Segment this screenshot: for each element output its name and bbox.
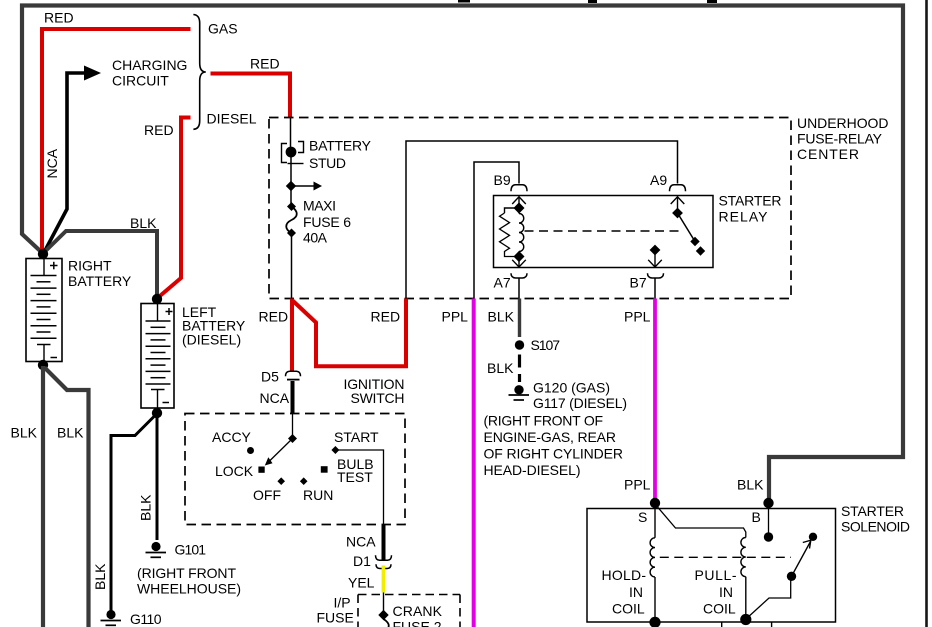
- svg-text:BLK: BLK: [737, 477, 764, 493]
- svg-text:COIL: COIL: [612, 600, 645, 616]
- svg-text:RED: RED: [259, 309, 289, 325]
- wire arrow to charging circuit: [45, 66, 102, 252]
- wire fuse box internal from relay B9: [474, 162, 519, 299]
- svg-text:IN: IN: [719, 584, 733, 600]
- label BATTERY STUD: [309, 137, 372, 171]
- connector pin A7: [511, 257, 527, 299]
- svg-text:RED: RED: [250, 55, 280, 71]
- svg-text:40A: 40A: [303, 229, 328, 245]
- svg-text:TEST: TEST: [337, 469, 373, 485]
- node switch common junction: [288, 434, 297, 443]
- svg-text:I/P: I/P: [334, 595, 351, 611]
- wire BLK between battery positives: [45, 231, 157, 297]
- label IGNITION SWITCH: [344, 376, 405, 406]
- contact OFF: [277, 477, 285, 485]
- contact RUN: [300, 477, 308, 485]
- label CHARGING CIRCUIT: [112, 57, 187, 89]
- svg-text:A7: A7: [494, 275, 511, 291]
- battery LEFT BATTERY (DIESEL): [141, 304, 174, 409]
- wire BLK right battery negative down (2): [45, 368, 89, 627]
- svg-text:PPL: PPL: [442, 309, 469, 325]
- ground G110: [101, 610, 122, 625]
- wire PPL from B9 down off-page: [472, 299, 476, 627]
- node hold-in coil bottom junction: [649, 617, 660, 627]
- svg-text:BLK: BLK: [130, 215, 157, 231]
- svg-text:S: S: [638, 509, 647, 525]
- label (RIGHT FRONT WHEELHOUSE): [137, 565, 241, 597]
- wire into I/P fuse block: [383, 593, 385, 614]
- label STARTER SOLENOID: [841, 503, 910, 535]
- svg-text:G101: G101: [175, 542, 207, 558]
- node junction with arrow tap: [286, 181, 322, 191]
- wire BLK A7 to S107: [518, 299, 521, 338]
- contact START: [331, 446, 339, 454]
- ground G120/G117: [509, 385, 530, 400]
- wire battery stud feed: [290, 118, 292, 148]
- svg-text:FUSE 6: FUSE 6: [303, 214, 351, 230]
- svg-text:RED: RED: [144, 122, 174, 138]
- svg-text:CENTER: CENTER: [797, 146, 859, 162]
- wire S to pull-in coil: [655, 504, 746, 538]
- svg-text:B: B: [752, 509, 761, 525]
- relay linkage (dashed): [525, 230, 683, 232]
- relay coil with resistor: [500, 202, 525, 262]
- svg-text:NCA: NCA: [346, 534, 376, 550]
- node solenoid S terminal: [650, 498, 660, 508]
- svg-text:NCA: NCA: [44, 148, 60, 178]
- svg-text:BATTERY: BATTERY: [309, 137, 372, 153]
- coil HOLD-IN COIL: [650, 504, 655, 622]
- ground G101: [146, 542, 167, 557]
- fuse MAXI FUSE 6 40A: [286, 202, 297, 238]
- box IGNITION SWITCH (dashed): [185, 414, 405, 525]
- svg-text:G110: G110: [130, 611, 162, 627]
- svg-text:ACCY: ACCY: [212, 429, 252, 445]
- node right battery negative junction: [38, 360, 48, 370]
- svg-text:D5: D5: [261, 369, 279, 385]
- svg-text:FUSE-RELAY: FUSE-RELAY: [797, 130, 883, 146]
- svg-text:FUSE 2: FUSE 2: [393, 619, 442, 627]
- svg-text:D1: D1: [353, 553, 371, 569]
- svg-text:BATTERY: BATTERY: [68, 273, 132, 289]
- connector D5: [286, 371, 301, 379]
- svg-text:ENGINE-GAS, REAR: ENGINE-GAS, REAR: [484, 429, 617, 445]
- label HOLD-IN COIL: [602, 567, 647, 616]
- wire left battery negative to G101: [156, 414, 159, 540]
- relay switch arm: [672, 208, 705, 256]
- label CRANK FUSE 2: [393, 603, 443, 627]
- svg-text:PPL: PPL: [624, 477, 651, 493]
- svg-text:PPL: PPL: [624, 309, 651, 325]
- battery stud terminal: [282, 142, 304, 164]
- svg-text:HOLD-: HOLD-: [602, 567, 647, 583]
- connector pin B7: [648, 245, 664, 299]
- node solenoid B terminal: [763, 498, 773, 508]
- wire maxi fuse to box edge: [291, 233, 293, 299]
- box I/P FUSE block (dashed): [358, 595, 460, 627]
- svg-text:CIRCUIT: CIRCUIT: [112, 72, 169, 88]
- label UNDERHOOD FUSE-RELAY CENTER: [797, 115, 889, 162]
- wire battery positive cable (right battery to starter solenoid B around page): [22, 6, 903, 503]
- svg-text:BLK: BLK: [92, 563, 108, 590]
- wire YEL D1 to crank fuse: [382, 566, 386, 593]
- svg-text:GAS: GAS: [208, 21, 238, 37]
- svg-text:RED: RED: [371, 309, 401, 325]
- fuse CRANK FUSE 2 (clipped): [384, 619, 389, 627]
- connector D1: [376, 555, 392, 568]
- svg-text:(DIESEL): (DIESEL): [182, 331, 241, 347]
- svg-text:YEL: YEL: [348, 575, 375, 591]
- svg-text:B7: B7: [630, 275, 647, 291]
- wire RED loop to ignition switch feed: [292, 299, 406, 367]
- brace GAS/DIESEL split: [193, 15, 205, 130]
- box STARTER SOLENOID: [587, 509, 836, 623]
- contact ACCY: [247, 447, 254, 454]
- svg-text:BLK: BLK: [488, 308, 515, 324]
- svg-text:COIL: COIL: [703, 600, 736, 616]
- svg-text:IN: IN: [629, 584, 643, 600]
- svg-text:(RIGHT FRONT OF: (RIGHT FRONT OF: [484, 413, 604, 429]
- svg-text:G117 (DIESEL): G117 (DIESEL): [533, 395, 627, 411]
- contact LOCK: [258, 467, 264, 473]
- wire BLK S107 to ground (dashed): [518, 355, 521, 383]
- label PULL-IN COIL: [695, 567, 737, 616]
- svg-text:START: START: [334, 429, 379, 445]
- svg-text:S107: S107: [531, 337, 561, 353]
- svg-text:CHARGING: CHARGING: [112, 57, 187, 73]
- wire START contact out: [339, 450, 384, 525]
- node left battery positive junction: [152, 294, 162, 304]
- label BULB TEST: [337, 456, 374, 485]
- label STARTER RELAY: [719, 192, 782, 224]
- wire stubs below solenoid: [722, 622, 772, 627]
- relay STARTER RELAY box: [494, 196, 714, 268]
- wire left battery negative to G110: [111, 415, 156, 612]
- svg-text:STARTER: STARTER: [841, 503, 904, 519]
- label RIGHT BATTERY: [68, 257, 132, 289]
- node pull-in coil bottom junction: [740, 614, 751, 625]
- contact BULB TEST: [321, 466, 328, 473]
- svg-text:G120 (GAS): G120 (GAS): [533, 379, 610, 395]
- wire RED charging circuit to right battery: [42, 29, 191, 252]
- wire RED (diesel) to left battery: [158, 118, 191, 299]
- svg-text:BLK: BLK: [57, 425, 84, 441]
- battery RIGHT BATTERY: [26, 259, 62, 362]
- svg-text:OFF: OFF: [253, 487, 281, 503]
- svg-text:HEAD-DIESEL): HEAD-DIESEL): [484, 462, 581, 478]
- connector pin B9: [511, 185, 527, 204]
- wire NCA ignition to D1: [382, 525, 386, 561]
- label MAXI FUSE 6 40A: [303, 198, 351, 246]
- svg-text:PULL-: PULL-: [695, 567, 737, 583]
- svg-text:OF RIGHT CYLINDER: OF RIGHT CYLINDER: [484, 446, 624, 462]
- svg-text:FUSE: FUSE: [317, 610, 354, 626]
- svg-text:RIGHT: RIGHT: [68, 257, 112, 273]
- node crank fuse junction: [378, 610, 388, 620]
- svg-text:RUN: RUN: [303, 487, 333, 503]
- solenoid switch arm with arrow: [787, 533, 817, 581]
- svg-text:STARTER: STARTER: [719, 192, 782, 208]
- box UNDERHOOD FUSE-RELAY CENTER (dashed): [269, 118, 791, 299]
- svg-text:BLK: BLK: [138, 494, 154, 521]
- wire switch common: [292, 414, 294, 439]
- svg-text:(RIGHT FRONT: (RIGHT FRONT: [137, 565, 236, 581]
- contact B inside solenoid: [764, 503, 773, 542]
- svg-text:LOCK: LOCK: [215, 463, 254, 479]
- svg-text:STUD: STUD: [309, 155, 346, 171]
- cropped page-title text remnants: [458, 0, 717, 3]
- node left battery negative junction: [152, 408, 162, 418]
- connector pin A9: [670, 185, 686, 213]
- svg-text:SWITCH: SWITCH: [351, 390, 405, 406]
- switch wiper arm: [265, 439, 293, 466]
- coil PULL-IN COIL: [741, 538, 746, 619]
- svg-text:SOLENOID: SOLENOID: [841, 519, 910, 535]
- svg-text:BLK: BLK: [11, 425, 38, 441]
- wire RED from brace to underhood fuse-relay center: [211, 74, 291, 118]
- wire RED maxi fuse to D5 connector: [290, 299, 294, 372]
- svg-text:A9: A9: [650, 172, 667, 188]
- node right battery positive junction: [38, 249, 48, 259]
- splice S107: [515, 340, 524, 349]
- wire BLK right battery negative down (1): [41, 366, 45, 627]
- svg-text:WHEELHOUSE): WHEELHOUSE): [137, 581, 241, 597]
- wire NCA D5 to ignition switch: [291, 381, 295, 414]
- label I/P FUSE: [317, 595, 354, 626]
- svg-text:RED: RED: [44, 10, 74, 26]
- svg-text:RELAY: RELAY: [719, 208, 769, 224]
- svg-text:DIESEL: DIESEL: [207, 110, 257, 126]
- wire stud to maxi fuse: [290, 157, 292, 206]
- wire PPL B7 to solenoid S: [653, 299, 657, 502]
- svg-text:NCA: NCA: [260, 390, 290, 406]
- svg-text:B9: B9: [494, 172, 511, 188]
- wire fuse box internal to relay A9: [406, 141, 678, 299]
- wire pull-in coil to switch pivot: [747, 578, 791, 619]
- label (RIGHT FRONT OF ENGINE-GAS, REAR OF RIGHT CYLINDER HEAD-DIESEL): [484, 413, 624, 478]
- svg-text:CRANK: CRANK: [393, 603, 443, 619]
- solenoid linkage (dashed): [660, 556, 791, 558]
- label LEFT BATTERY (DIESEL): [182, 304, 246, 347]
- svg-text:UNDERHOOD: UNDERHOOD: [797, 115, 889, 131]
- svg-text:BLK: BLK: [487, 360, 514, 376]
- svg-text:MAXI: MAXI: [303, 198, 336, 214]
